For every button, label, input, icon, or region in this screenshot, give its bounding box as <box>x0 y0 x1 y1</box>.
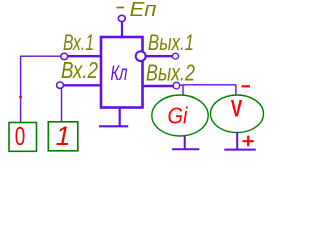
wire from Вх.1 to logic source 0 <box>21 56 61 122</box>
voltmeter minus terminal label <box>242 85 251 87</box>
output Вых.2: pin wire <box>143 85 174 87</box>
svg-text:Вых.1: Вых.1 <box>148 30 194 55</box>
output Вых.1: pin wire <box>145 55 173 57</box>
input Вх.2: pin wire <box>60 84 101 86</box>
svg-text:Кл: Кл <box>111 61 128 85</box>
voltmeter ground lead <box>236 133 238 149</box>
svg-text:Вх.2: Вх.2 <box>61 57 98 83</box>
svg-text:Вых.2: Вых.2 <box>146 60 195 86</box>
svg-text:0: 0 <box>15 121 25 151</box>
wire junction to generator Gi <box>182 85 184 96</box>
generator Gi <box>152 95 208 136</box>
generator Gi ground bar <box>172 148 199 150</box>
input Вх.1: terminal circle <box>61 53 68 59</box>
svg-text:Gi: Gi <box>168 103 189 129</box>
input Вх.1: pin wire <box>65 55 101 57</box>
switch block U1 Кл <box>101 37 143 108</box>
input Вх.2: terminal circle <box>57 82 64 88</box>
wire Вых.2 to voltmeter <box>180 85 236 95</box>
power terminal -Еп <box>117 0 157 37</box>
logic source 0 <box>9 121 37 151</box>
voltmeter ground bar <box>224 149 256 151</box>
ground bar of block <box>99 109 128 127</box>
node marker (red dot) <box>19 96 22 98</box>
generator Gi ground lead <box>184 136 186 149</box>
wire from Вх.2 to logic source 1 <box>61 89 63 122</box>
output Вых.2: terminal circle <box>173 82 180 89</box>
logic source 1 <box>48 121 78 151</box>
svg-text:1: 1 <box>56 121 71 151</box>
svg-text:Вх.1: Вх.1 <box>63 30 94 55</box>
output Вых.1: big terminal circle on block edge <box>136 51 146 61</box>
output Вых.1: open end circle <box>172 53 178 59</box>
voltmeter V <box>211 95 264 133</box>
svg-text:Еп: Еп <box>130 0 157 21</box>
svg-text:V: V <box>231 96 243 123</box>
voltmeter plus terminal label <box>243 136 254 147</box>
